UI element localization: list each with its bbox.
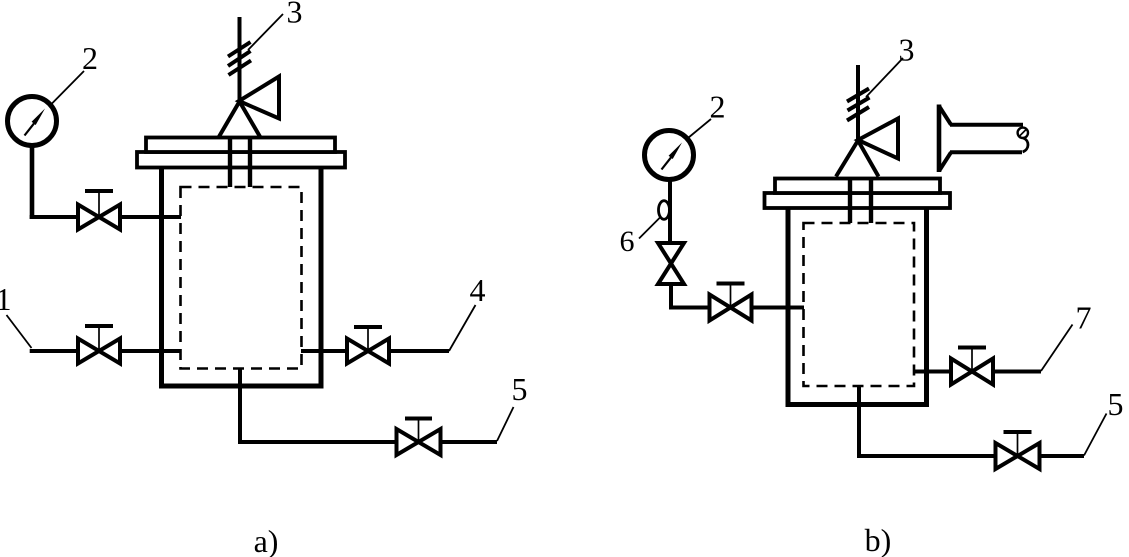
vessel inner dashed wall (a) bbox=[181, 187, 302, 369]
wire: gauge drop pipe (b) bbox=[668, 177, 672, 244]
pressure gauge 2 (a) bbox=[8, 97, 57, 146]
three-way cock 6 (b) bbox=[659, 201, 670, 220]
leader line from label 1 (a) bbox=[7, 315, 32, 348]
valve on gauge inlet line (b) bbox=[710, 284, 752, 321]
lid nozzle stud right (a) bbox=[248, 139, 252, 187]
svg-text:b): b) bbox=[865, 522, 892, 557]
leader line to label 3 (b) bbox=[866, 58, 903, 97]
leader line from label 6 (b) bbox=[639, 217, 661, 239]
wire: outlet pipe 4 (a) bbox=[301, 349, 449, 353]
svg-text:2: 2 bbox=[710, 89, 726, 125]
safety valve vent line 3 (b) bbox=[856, 65, 860, 142]
svg-text:4: 4 bbox=[470, 272, 486, 308]
wire: gauge pipe to vessel (a) bbox=[30, 215, 181, 219]
safety valve lower triangle (a) bbox=[219, 102, 261, 138]
safety valve lower triangle (b) bbox=[836, 141, 879, 177]
leader line to label 5 (a) bbox=[497, 407, 514, 441]
vessel lid upper plate (a) bbox=[146, 138, 335, 153]
vessel inner dashed wall (b) bbox=[804, 223, 915, 386]
leader line to label 3 (a) bbox=[248, 14, 283, 50]
signal horn tube bottom (b) bbox=[950, 150, 1022, 154]
wire: bottom drain vertical (b) bbox=[857, 386, 861, 458]
lid nozzle stud left (b) bbox=[848, 180, 852, 223]
vent hatch marks (a) bbox=[228, 42, 251, 75]
signal horn end bump (b) bbox=[1023, 138, 1028, 152]
signal horn end curl circle (b) bbox=[1018, 128, 1028, 138]
safety valve side triangle (b) bbox=[858, 119, 898, 159]
pressure gauge 2 (b) bbox=[645, 131, 694, 180]
lid nozzle stud left (a) bbox=[228, 139, 232, 187]
signal horn tube top (b) bbox=[950, 123, 1023, 127]
valve on outlet pipe 4 (a) bbox=[347, 327, 389, 364]
signal horn end curl slash (b) bbox=[1019, 129, 1027, 137]
svg-text:5: 5 bbox=[1108, 386, 1124, 422]
leader line to label 5 (b) bbox=[1084, 414, 1107, 456]
leader line to label 7 (b) bbox=[1041, 325, 1073, 372]
wire: inlet pipe 1 (a) bbox=[30, 349, 181, 353]
vessel body (b) bbox=[788, 207, 927, 405]
signal horn bell mouth (b) bbox=[937, 105, 942, 173]
wire: bottom drain horizontal (b) bbox=[857, 454, 1084, 458]
vent hatch marks (b) bbox=[847, 89, 870, 121]
svg-text:5: 5 bbox=[512, 371, 528, 407]
svg-text:1: 1 bbox=[0, 281, 12, 317]
leader line to label 4 (a) bbox=[449, 305, 476, 351]
svg-text:2: 2 bbox=[82, 40, 98, 76]
safety valve vent line 3 (a) bbox=[238, 17, 242, 103]
safety valve side triangle (a) bbox=[239, 77, 279, 119]
vessel body (a) bbox=[162, 165, 322, 386]
signal horn bell top slant (b) bbox=[939, 106, 951, 125]
leader line to label 2 (a) bbox=[50, 71, 84, 106]
valve on gauge line (a) bbox=[78, 191, 120, 230]
wire: bottom drain vertical (a) bbox=[238, 368, 242, 444]
vessel lid lower plate (a) bbox=[137, 152, 345, 168]
valve on drain pipe 5 (b) bbox=[996, 432, 1040, 469]
svg-text:3: 3 bbox=[899, 32, 915, 68]
wire: bottom drain horizontal (a) bbox=[238, 440, 497, 444]
lid nozzle stud right (b) bbox=[869, 180, 873, 223]
svg-text:3: 3 bbox=[287, 0, 303, 30]
signal horn bell bottom slant (b) bbox=[939, 152, 951, 171]
vessel lid upper plate (b) bbox=[775, 179, 940, 194]
leader line to label 2 (b) bbox=[688, 119, 711, 138]
svg-text:7: 7 bbox=[1076, 300, 1092, 336]
valve on outlet pipe 7 (b) bbox=[951, 348, 993, 385]
wire: outlet pipe 7 (b) bbox=[914, 370, 1041, 374]
valve on drain pipe 5 (a) bbox=[397, 419, 441, 456]
wire: elbow from vertical valve to vessel (b) bbox=[671, 284, 804, 308]
svg-text:6: 6 bbox=[620, 225, 635, 258]
wire: gauge drop pipe (a) bbox=[30, 143, 35, 219]
vessel lid lower plate (b) bbox=[765, 193, 951, 208]
valve on inlet pipe 1 (a) bbox=[78, 326, 120, 364]
svg-text:a): a) bbox=[254, 523, 279, 557]
vertical valve under gauge (b) bbox=[658, 243, 684, 284]
